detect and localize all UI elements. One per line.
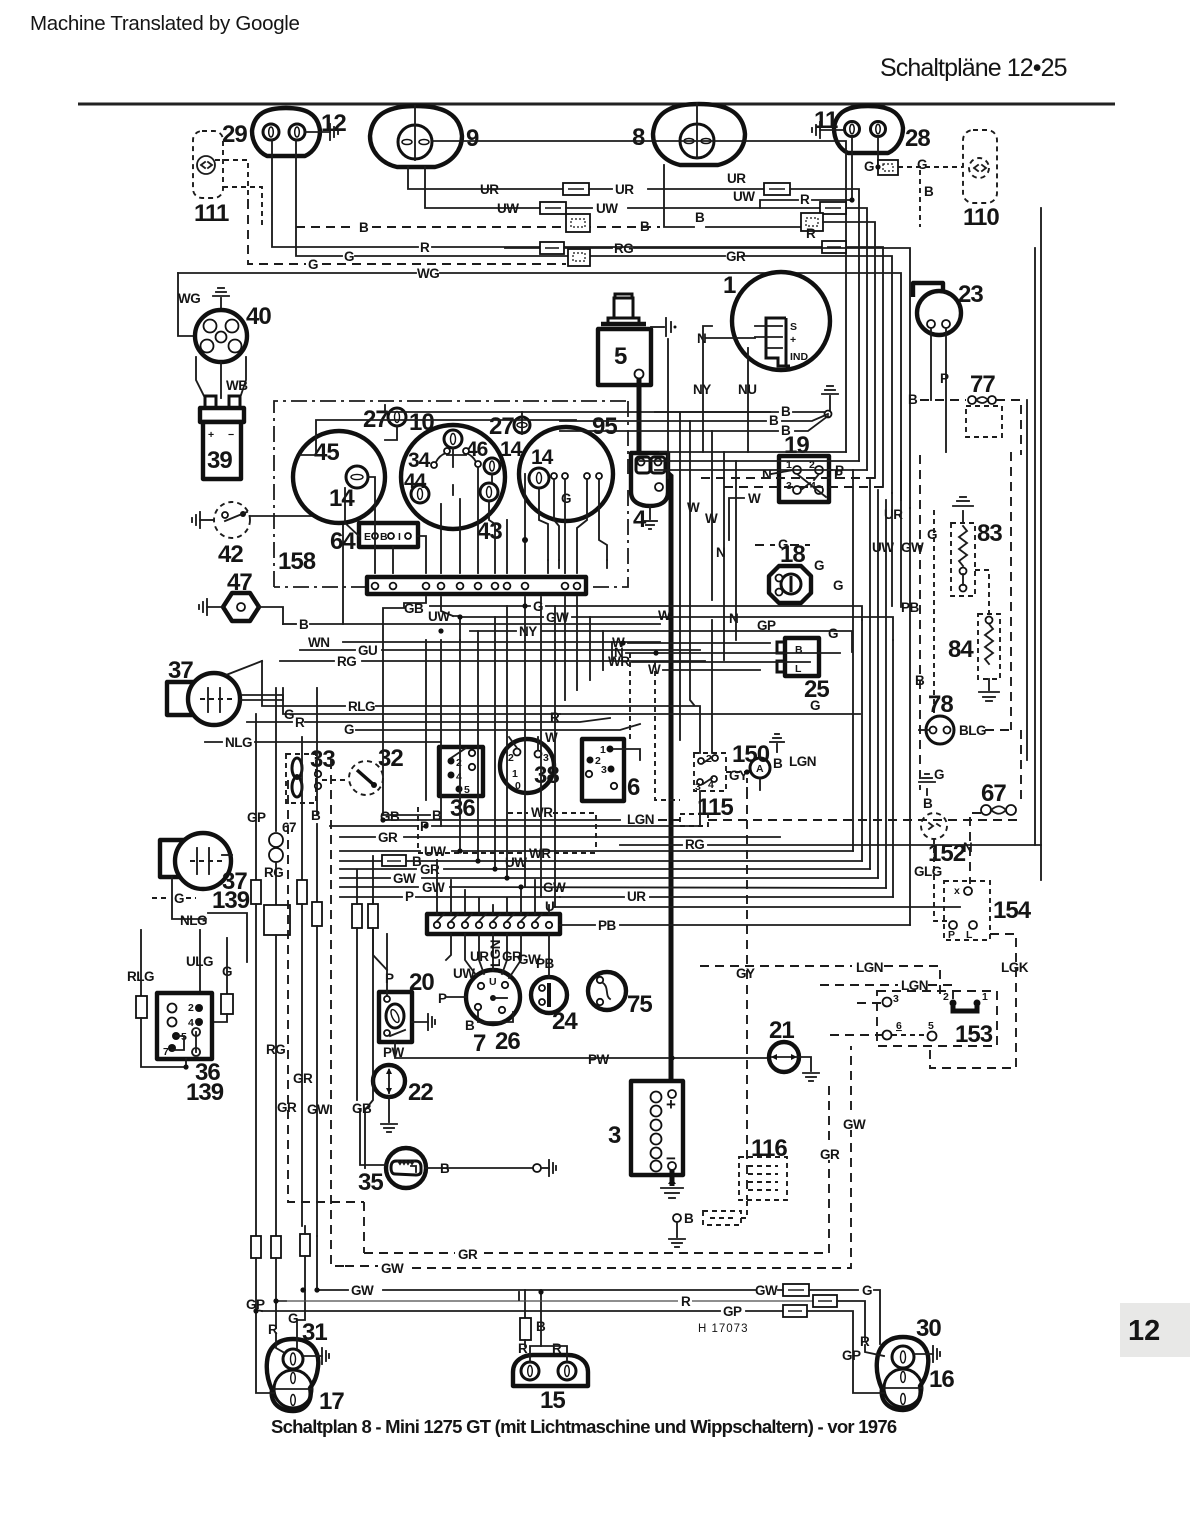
washer pump 5 xyxy=(615,294,632,298)
svg-text:E: E xyxy=(364,531,371,543)
svg-text:7: 7 xyxy=(473,1030,486,1057)
svg-text:R: R xyxy=(518,1341,528,1356)
svg-text:B: B xyxy=(915,673,925,688)
wire R into 15 left xyxy=(518,1292,520,1300)
chapter tab 12 xyxy=(1120,1303,1190,1357)
svg-text:5: 5 xyxy=(928,1020,934,1032)
svg-text:6: 6 xyxy=(627,774,640,801)
svg-text:R: R xyxy=(800,192,810,207)
svg-text:G: G xyxy=(828,626,838,641)
svg-text:N: N xyxy=(697,331,706,346)
svg-text:45: 45 xyxy=(314,439,339,466)
ground above 152 xyxy=(926,789,928,795)
lighter 20 xyxy=(379,992,412,1042)
svg-text:22: 22 xyxy=(408,1079,433,1106)
svg-text:UW: UW xyxy=(424,844,446,859)
svg-text:4: 4 xyxy=(456,771,462,783)
wire R run xyxy=(272,140,418,247)
svg-text:GB: GB xyxy=(404,601,424,616)
svg-text:83: 83 xyxy=(977,520,1002,547)
svg-text:75: 75 xyxy=(627,991,652,1018)
svg-text:B: B xyxy=(908,392,918,407)
svg-text:78: 78 xyxy=(928,691,953,718)
wire UW xyxy=(441,597,453,616)
svg-text:B: B xyxy=(695,210,705,225)
svg-text:3: 3 xyxy=(601,764,607,776)
svg-text:1: 1 xyxy=(512,768,518,780)
wire B run solid xyxy=(664,165,694,227)
svg-text:R: R xyxy=(681,1294,691,1309)
svg-text:29: 29 xyxy=(222,121,247,148)
bulb 152 (dashed) xyxy=(921,813,947,839)
bulb in 28 xyxy=(871,122,886,137)
svg-text:G: G xyxy=(561,491,571,506)
mid verticals strip1 to fan xyxy=(425,640,427,800)
wire B2 xyxy=(560,420,766,422)
svg-text:139: 139 xyxy=(186,1079,224,1106)
svg-text:47: 47 xyxy=(227,569,252,596)
ground for lamp 11 xyxy=(820,129,844,131)
wire NY xyxy=(703,326,712,452)
svg-text:4: 4 xyxy=(188,1017,194,1029)
svg-text:31: 31 xyxy=(302,1319,327,1346)
wire G dashed near 18 xyxy=(755,544,775,546)
bulb in 29 xyxy=(289,124,305,140)
svg-text:UW: UW xyxy=(733,189,755,204)
warning lamp 24 xyxy=(531,977,567,1013)
ground 30 xyxy=(914,1353,933,1355)
svg-text:19: 19 xyxy=(784,432,809,459)
flasher unit 4 xyxy=(631,453,668,506)
svg-text:B: B xyxy=(795,644,803,656)
svg-text:+: + xyxy=(208,429,214,441)
svg-text:RG: RG xyxy=(266,1042,285,1057)
wire B dashed to 77 xyxy=(920,399,966,401)
wire B1 xyxy=(655,411,778,413)
svg-text:7: 7 xyxy=(163,1046,169,1058)
svg-text:GP: GP xyxy=(247,810,266,825)
fan switch 32 xyxy=(349,761,383,795)
svg-text:G: G xyxy=(288,1311,298,1326)
svg-text:110: 110 xyxy=(963,204,999,231)
svg-text:GW: GW xyxy=(422,880,445,895)
wire GB row xyxy=(383,814,430,816)
svg-text:GR: GR xyxy=(820,1147,840,1162)
svg-text:A: A xyxy=(756,763,764,775)
svg-text:37: 37 xyxy=(168,657,193,684)
svg-text:RLG: RLG xyxy=(348,699,375,714)
svg-text:RG: RG xyxy=(685,837,704,852)
svg-text:24: 24 xyxy=(552,1008,578,1035)
svg-text:77: 77 xyxy=(970,371,995,398)
svg-text:B: B xyxy=(299,617,309,632)
svg-text:RG: RG xyxy=(614,241,633,256)
svg-text:12: 12 xyxy=(1128,1315,1160,1347)
svg-text:WG: WG xyxy=(417,266,439,281)
svg-text:G: G xyxy=(810,698,820,713)
interior lamp 21 xyxy=(769,1042,799,1072)
svg-text:2: 2 xyxy=(456,757,462,769)
svg-text:PW: PW xyxy=(588,1052,610,1067)
wire from 47 xyxy=(259,607,283,624)
svg-text:0: 0 xyxy=(515,780,521,792)
wire G dashed run xyxy=(248,200,306,264)
svg-text:UR: UR xyxy=(470,949,489,964)
wire B dashed left xyxy=(296,226,356,228)
svg-text:G: G xyxy=(864,159,874,174)
svg-text:152: 152 xyxy=(928,840,966,867)
connector 110 (dashed) xyxy=(963,130,997,203)
connector rects mid xyxy=(352,904,362,928)
bulb 14 in 95 xyxy=(529,468,549,488)
svg-text:GB: GB xyxy=(352,1101,372,1116)
wire P row xyxy=(330,825,418,827)
printed circuit 64 xyxy=(359,523,418,547)
svg-text:14: 14 xyxy=(531,446,554,469)
ground for 5 xyxy=(651,326,664,328)
wire B vertical xyxy=(316,688,318,814)
lamp 9 (headlamp) xyxy=(370,106,462,167)
svg-text:G: G xyxy=(344,722,354,737)
svg-text:153: 153 xyxy=(955,1021,993,1048)
svg-text:LGN: LGN xyxy=(488,940,503,967)
terminal block in 1 xyxy=(766,318,790,366)
wire WG run xyxy=(178,272,416,274)
right bundle verticals xyxy=(660,451,846,453)
lamp 8 (headlamp) xyxy=(653,104,745,165)
svg-text:PB: PB xyxy=(536,956,555,971)
pins in 95 xyxy=(551,473,557,479)
contacts in 10 xyxy=(436,453,446,462)
wire UR run xyxy=(408,167,563,189)
svg-text:+: + xyxy=(790,334,796,346)
svg-text:84: 84 xyxy=(948,636,974,663)
svg-text:5: 5 xyxy=(614,343,627,370)
svg-text:RG: RG xyxy=(337,654,356,669)
svg-text:B: B xyxy=(684,1211,694,1226)
dashed feeds into 153 xyxy=(857,1002,882,1004)
svg-text:−: − xyxy=(666,1149,676,1168)
svg-text:9: 9 xyxy=(466,125,479,152)
svg-text:GR: GR xyxy=(378,830,398,845)
oil switch 18 xyxy=(769,566,811,603)
fuse 47 xyxy=(223,593,259,621)
horn 37b/139 xyxy=(160,840,192,877)
instrument panel boundary 158 (dash-dot) xyxy=(274,401,628,587)
svg-text:P: P xyxy=(940,371,949,386)
right far verticals xyxy=(1026,400,1028,760)
header rule xyxy=(78,103,1115,106)
ignition coil 39 xyxy=(200,408,244,422)
svg-text:IND: IND xyxy=(790,351,809,363)
wire from 36 down xyxy=(185,1059,187,1067)
wiper switch 115 xyxy=(694,753,726,791)
wire 23 left pin xyxy=(930,328,932,400)
ignition switch 7/26 xyxy=(466,970,520,1024)
svg-text:W: W xyxy=(687,500,700,515)
svg-text:WN: WN xyxy=(308,635,330,650)
dashed G line down xyxy=(933,510,935,716)
svg-text:B: B xyxy=(781,404,791,419)
svg-text:154: 154 xyxy=(993,897,1032,924)
svg-text:LGN: LGN xyxy=(789,754,816,769)
wire NU xyxy=(747,348,749,452)
svg-text:U: U xyxy=(489,976,497,988)
svg-text:UW: UW xyxy=(497,201,519,216)
ground for 42 xyxy=(200,519,214,521)
wire dashed 77 to right xyxy=(996,400,1021,455)
svg-text:G: G xyxy=(927,527,937,542)
svg-text:PB: PB xyxy=(598,918,617,933)
wire 23 right pin P xyxy=(945,328,947,452)
svg-text:GW: GW xyxy=(755,1283,778,1298)
ground for 47 xyxy=(207,606,223,608)
square connector on B left xyxy=(566,214,590,232)
svg-text:GU: GU xyxy=(358,643,377,658)
svg-text:8: 8 xyxy=(632,124,645,151)
svg-text:P: P xyxy=(405,889,414,904)
wire G fuse lamp28 xyxy=(877,137,879,167)
heater fan 33 xyxy=(286,754,316,803)
battery cable (thick) xyxy=(637,378,642,458)
svg-text:21: 21 xyxy=(769,1017,794,1044)
svg-text:UW: UW xyxy=(428,609,450,624)
bulb bottom-right in 10 xyxy=(480,483,498,501)
svg-text:UW: UW xyxy=(453,966,475,981)
svg-text:S: S xyxy=(790,321,797,333)
wire R lamp28 drop xyxy=(812,137,852,200)
wire GR row xyxy=(340,836,375,838)
svg-text:G: G xyxy=(833,578,843,593)
ground for 22 xyxy=(388,1097,390,1122)
resistor 84 xyxy=(978,614,1000,679)
wire GP solid long xyxy=(262,1310,720,1312)
ground for lamp 12 xyxy=(305,131,330,133)
wire GR vertical dashed xyxy=(288,780,364,1202)
wire GW dashed long xyxy=(345,1265,378,1267)
svg-text:2: 2 xyxy=(943,991,949,1003)
svg-text:GP: GP xyxy=(723,1304,742,1319)
dashed mid verticals xyxy=(629,653,631,740)
tachometer 95 xyxy=(519,427,613,521)
svg-text:6: 6 xyxy=(896,1020,902,1032)
svg-text:40: 40 xyxy=(246,303,271,330)
clock 22 xyxy=(373,1065,405,1097)
svg-text:32: 32 xyxy=(378,745,403,772)
svg-text:UW: UW xyxy=(505,855,527,870)
relay 36/139 xyxy=(157,993,212,1059)
wire UW run xyxy=(425,167,540,208)
switch 75 xyxy=(588,972,626,1010)
svg-text:17: 17 xyxy=(319,1388,344,1415)
svg-text:−: − xyxy=(228,429,234,441)
bulb in 9 xyxy=(398,125,432,159)
wire GU xyxy=(300,649,355,651)
relay 19 xyxy=(779,456,829,502)
wire G xyxy=(430,605,530,607)
svg-text:67: 67 xyxy=(981,780,1006,807)
bulb in 29 xyxy=(263,124,279,140)
svg-text:158: 158 xyxy=(278,548,316,575)
svg-text:3: 3 xyxy=(608,1122,621,1149)
wire G dashed to 110 xyxy=(898,166,963,168)
battery 3 xyxy=(631,1081,683,1175)
svg-text:Schaltplan 8 - Mini 1275 GT (m: Schaltplan 8 - Mini 1275 GT (mit Lichtma… xyxy=(271,1416,897,1437)
horn 37 xyxy=(167,682,200,715)
svg-text:42: 42 xyxy=(218,541,243,568)
svg-text:B: B xyxy=(380,531,388,543)
svg-text:B: B xyxy=(923,796,933,811)
svg-text:G: G xyxy=(934,767,944,782)
wire GR square connector xyxy=(211,275,213,277)
svg-text:LGK: LGK xyxy=(1001,960,1029,975)
wire GW solid long xyxy=(319,1289,348,1291)
svg-text:14: 14 xyxy=(329,485,355,512)
switch 42 (dashed) xyxy=(214,502,250,538)
svg-text:R: R xyxy=(295,715,305,730)
svg-text:G: G xyxy=(862,1283,872,1298)
wire G run xyxy=(296,140,342,256)
wire G mid xyxy=(242,695,560,714)
wire NLG from 37b xyxy=(172,877,206,919)
speedometer 10 xyxy=(401,425,505,529)
svg-text:3: 3 xyxy=(893,993,899,1005)
wire RLG mid xyxy=(262,661,345,706)
svg-text:43: 43 xyxy=(477,518,502,545)
wire B dashed from 110 xyxy=(919,170,921,227)
svg-text:L: L xyxy=(966,929,973,941)
wire R solid long xyxy=(276,1300,678,1302)
svg-text:3: 3 xyxy=(786,480,792,492)
svg-text:139: 139 xyxy=(212,887,250,914)
svg-text:2: 2 xyxy=(508,752,514,764)
strip2 feeds from fan xyxy=(437,860,549,914)
svg-text:I: I xyxy=(398,531,401,543)
ground junction B wires xyxy=(829,396,831,412)
wire GW dashed vertical xyxy=(331,760,345,1266)
svg-text:2: 2 xyxy=(188,1002,194,1014)
wire P into 20 xyxy=(386,934,388,996)
ground for 20 xyxy=(412,1021,428,1023)
ground below 84 xyxy=(988,679,990,690)
svg-text:GR: GR xyxy=(726,249,746,264)
wire B of 7/26 xyxy=(478,1011,513,1022)
ballast resistor 83 xyxy=(951,523,975,596)
main beam switch 153 xyxy=(877,991,997,1046)
wire from 35 up xyxy=(360,1110,386,1165)
svg-text:UW: UW xyxy=(596,201,618,216)
svg-text:x: x xyxy=(954,885,960,897)
ground above 83 xyxy=(962,511,964,523)
svg-text:B: B xyxy=(359,220,369,235)
bulb 14 in 45 xyxy=(346,466,368,488)
svg-text:GW: GW xyxy=(843,1117,866,1132)
wire B fuse row xyxy=(340,860,382,862)
svg-text:NLG: NLG xyxy=(225,735,252,750)
cluster internal wiring xyxy=(385,426,397,440)
wire G to 31 lamp xyxy=(297,1290,305,1349)
wire B3 xyxy=(560,430,778,432)
svg-text:BLG: BLG xyxy=(959,723,986,738)
multi-pin connector strip xyxy=(367,577,586,594)
svg-text:GW: GW xyxy=(351,1283,374,1298)
svg-text:LGN: LGN xyxy=(627,812,654,827)
wires into 7/26 from strip xyxy=(465,934,476,975)
bulb top in 10 xyxy=(444,430,462,448)
svg-text:LGN: LGN xyxy=(856,960,883,975)
svg-text:R: R xyxy=(806,226,816,241)
ground below B xyxy=(676,1222,678,1237)
wire from 37 xyxy=(226,661,262,675)
wire WN xyxy=(343,641,660,643)
svg-text:WB: WB xyxy=(226,378,248,393)
svg-text:W: W xyxy=(545,730,558,745)
svg-text:R: R xyxy=(552,1341,562,1356)
svg-text:UW: UW xyxy=(872,540,894,555)
svg-text:P: P xyxy=(948,929,955,941)
wire B from 35 xyxy=(426,1167,533,1169)
horn 23 xyxy=(913,283,943,297)
svg-text:34: 34 xyxy=(408,449,431,472)
wire RG run xyxy=(505,247,540,249)
svg-text:W: W xyxy=(658,608,671,623)
svg-text:WG: WG xyxy=(178,291,200,306)
svg-text:115: 115 xyxy=(697,794,733,821)
svg-text:Schaltpläne 12•25: Schaltpläne 12•25 xyxy=(880,54,1067,82)
svg-text:GR: GR xyxy=(458,1247,478,1262)
lamp 29 (front lamp cluster) xyxy=(252,108,320,156)
svg-text:B: B xyxy=(773,756,783,771)
svg-text:NY: NY xyxy=(519,624,537,639)
svg-text:39: 39 xyxy=(207,447,232,474)
connector 111 (dashed) xyxy=(193,131,223,198)
wire WG down-left xyxy=(178,273,195,336)
wire B with dashed connector xyxy=(673,1214,681,1222)
wire WB xyxy=(220,362,222,398)
svg-text:15: 15 xyxy=(540,1387,565,1414)
svg-text:P: P xyxy=(438,991,447,1006)
rear lamp 31/17 xyxy=(267,1339,319,1411)
svg-text:64: 64 xyxy=(330,528,356,555)
svg-text:28: 28 xyxy=(905,125,930,152)
wire from 42 xyxy=(250,516,343,624)
rocker switch 38 xyxy=(500,739,554,793)
svg-text:UR: UR xyxy=(727,171,746,186)
svg-text:20: 20 xyxy=(409,969,434,996)
wire NLG xyxy=(205,741,222,743)
svg-text:16: 16 xyxy=(929,1366,954,1393)
svg-text:23: 23 xyxy=(958,281,983,308)
wire 111 leads xyxy=(215,160,248,200)
svg-text:GW: GW xyxy=(381,1261,404,1276)
svg-text:B: B xyxy=(440,1161,450,1176)
switch panel 36b xyxy=(439,747,483,796)
svg-text:95: 95 xyxy=(592,413,617,440)
wire G dashes at 37b xyxy=(152,897,170,899)
svg-text:GY: GY xyxy=(736,966,755,981)
svg-text:UR: UR xyxy=(615,182,634,197)
svg-text:NU: NU xyxy=(738,382,757,397)
svg-text:B: B xyxy=(311,808,321,823)
svg-text:NY: NY xyxy=(693,382,711,397)
lamp 28 (front lamp cluster) xyxy=(834,106,903,153)
wire GB xyxy=(383,597,426,815)
ground 31 xyxy=(303,1355,322,1357)
svg-text:GR: GR xyxy=(277,1100,297,1115)
distributor 40 xyxy=(195,310,247,362)
wire GR vertical solid xyxy=(301,737,303,880)
wire NY xyxy=(470,630,516,632)
